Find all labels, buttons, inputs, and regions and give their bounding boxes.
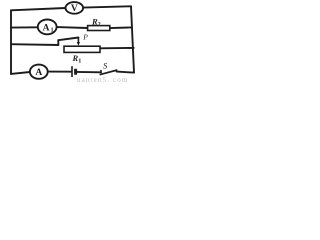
voltmeter V: [66, 2, 84, 14]
wire A1 to resistor R2: [57, 26, 88, 29]
wire left rail: [10, 10, 12, 74]
wire rheostat jog vertical: [57, 40, 59, 45]
wire A1 branch left: [11, 26, 38, 28]
svg-text:1: 1: [78, 58, 81, 65]
battery cell: [72, 66, 76, 77]
ammeter A1: [38, 20, 57, 35]
wire voltmeter to top-right corner: [83, 6, 131, 7]
rheostat wiper arrow P: [77, 37, 80, 46]
label R2: [91, 17, 101, 29]
wire bottom-left corner to ammeter A: [11, 72, 30, 74]
svg-text:uanten5. com: uanten5. com: [77, 76, 129, 84]
wire wiper horizontal: [58, 38, 78, 41]
wire ammeter A to battery: [48, 71, 71, 73]
label R1: [72, 53, 82, 65]
svg-text:S: S: [103, 60, 108, 70]
svg-text:P: P: [82, 33, 88, 42]
wire right rail: [131, 6, 134, 72]
svg-text:A: A: [35, 68, 42, 78]
wire R1 to right rail: [100, 47, 134, 49]
switch S blade: [100, 70, 118, 75]
svg-text:A: A: [43, 23, 50, 33]
svg-text:1: 1: [50, 27, 53, 34]
wire rheostat branch left: [11, 43, 58, 46]
wire R2 to right rail: [110, 26, 132, 29]
svg-text:V: V: [71, 4, 78, 14]
ammeter A: [30, 65, 48, 79]
resistor R2: [88, 26, 110, 31]
resistor R1 rheostat track: [64, 46, 100, 52]
svg-text:2: 2: [98, 21, 101, 28]
wire switch to bottom-right corner: [117, 72, 134, 73]
wire battery to switch: [77, 71, 101, 73]
wire top-left corner to voltmeter: [11, 8, 66, 10]
